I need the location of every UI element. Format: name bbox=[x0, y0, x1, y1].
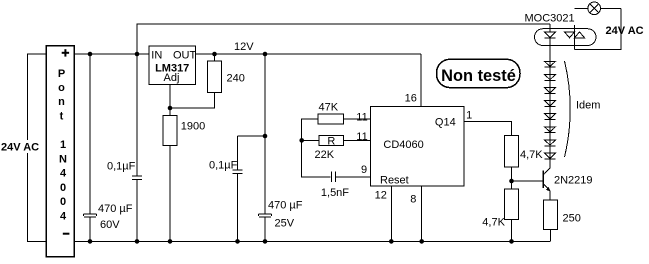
wire diode chain vertical bbox=[549, 58, 551, 159]
capacitor C 0,1uF (input) branch wire bbox=[136, 54, 138, 241]
bracket Idem bbox=[565, 61, 571, 157]
IC U CD4060 box bbox=[371, 107, 465, 186]
resistor R 1900 bbox=[163, 116, 177, 146]
svg-text:4,7K: 4,7K bbox=[520, 149, 543, 161]
wire top 24VAC rail bbox=[137, 24, 550, 54]
svg-text:240: 240 bbox=[227, 73, 245, 85]
node 24V AC label (left) bbox=[0, 140, 44, 153]
wire Adj to 240 resistor jog bbox=[170, 93, 215, 109]
wire + output of bridge to 12V rail bbox=[74, 53, 149, 55]
resistor R 250 bbox=[543, 200, 557, 230]
badge Non teste bbox=[437, 59, 521, 87]
label bridge + bbox=[62, 49, 69, 56]
svg-text:12: 12 bbox=[375, 189, 387, 201]
svg-text:2N2219: 2N2219 bbox=[554, 175, 593, 187]
svg-text:1: 1 bbox=[60, 139, 66, 151]
svg-text:470 µF: 470 µF bbox=[268, 200, 303, 212]
wire base node to transistor bbox=[512, 180, 543, 182]
svg-text:n: n bbox=[58, 96, 65, 108]
capacitor C 470uF 60V branch wire bbox=[89, 54, 91, 241]
wire 4,7K to base node bbox=[511, 167, 513, 189]
transistor Q1 2N2219 bbox=[542, 170, 544, 188]
svg-text:N: N bbox=[59, 153, 67, 165]
svg-text:o: o bbox=[58, 82, 65, 94]
wire 240 top to rail bbox=[214, 54, 216, 61]
wire oscillator left rail bbox=[302, 119, 331, 177]
resistor R 4,7K lower bbox=[505, 189, 519, 220]
resistor R 240 bbox=[208, 61, 222, 93]
svg-text:470 µF: 470 µF bbox=[98, 203, 133, 215]
wire 47K to pin 11 bbox=[344, 118, 371, 120]
svg-text:0,1µF: 0,1µF bbox=[209, 160, 238, 172]
svg-text:1900: 1900 bbox=[181, 120, 205, 132]
capacitor 0,1uF plates bbox=[132, 176, 142, 179]
lamp 24V bbox=[588, 2, 601, 15]
svg-text:250: 250 bbox=[563, 212, 581, 224]
wire pin8 to ground bbox=[421, 186, 423, 242]
svg-text:47K: 47K bbox=[319, 102, 339, 114]
svg-text:Reset: Reset bbox=[380, 175, 409, 187]
wire triac bottom to lamp right bbox=[575, 8, 622, 49]
svg-text:0: 0 bbox=[60, 196, 66, 208]
svg-text:0: 0 bbox=[60, 182, 66, 194]
svg-text:9: 9 bbox=[361, 164, 367, 176]
triac inside MOC3021 bbox=[574, 25, 576, 50]
wire LED vertical through stadium bbox=[549, 24, 551, 58]
optocoupler U MOC3021 stadium bbox=[535, 29, 597, 46]
svg-text:16: 16 bbox=[405, 93, 417, 105]
LED inside MOC3021 bbox=[545, 32, 556, 38]
label bridge - bbox=[63, 233, 70, 235]
svg-text:0,1µF: 0,1µF bbox=[107, 161, 136, 173]
capacitor 470uF 25V plates bbox=[259, 214, 272, 217]
svg-text:4,7K: 4,7K bbox=[482, 217, 505, 229]
svg-text:60V: 60V bbox=[100, 219, 120, 231]
wire 1,5nF to pin 9 bbox=[335, 176, 370, 178]
svg-text:R: R bbox=[327, 135, 335, 147]
resistor R 22K box bbox=[319, 135, 343, 145]
svg-text:Q14: Q14 bbox=[435, 116, 456, 128]
regulator U LM317 box bbox=[149, 46, 196, 85]
svg-text:P: P bbox=[58, 68, 65, 80]
wire 4,7K lower to ground bbox=[511, 220, 513, 242]
wire pin1 Q14 output bbox=[464, 121, 512, 135]
bridge rectifier Pont 1N4004 bbox=[46, 46, 74, 257]
wire pin12 to ground bbox=[390, 186, 392, 242]
diode chain 8x 1N4004 bbox=[545, 61, 556, 67]
capacitor C 0,1uF (output) branch bbox=[238, 136, 266, 241]
wire lamp right bbox=[601, 7, 622, 9]
capacitor 0,1uF output plates bbox=[232, 170, 242, 174]
svg-text:24V AC: 24V AC bbox=[606, 25, 644, 37]
capacitor C 470uF 25V branch wire bbox=[264, 54, 266, 241]
svg-text:8: 8 bbox=[410, 194, 416, 206]
wire pin16 to 12V rail bbox=[420, 54, 422, 107]
wire bottom rail left segment bbox=[28, 240, 46, 242]
svg-text:t: t bbox=[60, 111, 64, 123]
svg-text:Idem: Idem bbox=[576, 100, 600, 112]
wire AC input loop left bbox=[28, 54, 46, 241]
resistor R 4,7K upper bbox=[505, 135, 519, 167]
svg-text:11: 11 bbox=[356, 112, 367, 124]
svg-text:4: 4 bbox=[60, 168, 67, 180]
svg-text:1: 1 bbox=[466, 109, 472, 121]
svg-text:12V: 12V bbox=[234, 41, 254, 53]
svg-text:OUT: OUT bbox=[173, 50, 197, 62]
svg-text:24V AC: 24V AC bbox=[1, 142, 39, 154]
wire - output of bridge to ground rail bbox=[74, 240, 550, 242]
resistor R 47K bbox=[318, 114, 344, 124]
svg-text:11: 11 bbox=[356, 131, 367, 143]
svg-text:1,5nF: 1,5nF bbox=[321, 187, 349, 199]
svg-text:4: 4 bbox=[60, 211, 67, 223]
wire R to pin 11 bbox=[344, 139, 371, 141]
wire LM317 OUT to 12V rail bbox=[196, 53, 421, 55]
wire lamp left to triac top bbox=[575, 7, 588, 9]
svg-text:MOC3021: MOC3021 bbox=[525, 13, 575, 25]
wire 250 to ground bbox=[549, 230, 551, 242]
capacitor C 1,5nF plates bbox=[332, 171, 336, 182]
wire LM317 Adj down bbox=[169, 84, 171, 108]
svg-text:Non testé: Non testé bbox=[441, 67, 516, 85]
svg-text:22K: 22K bbox=[315, 149, 335, 161]
wire rail to R bbox=[302, 139, 320, 141]
wire 1900 to ground bbox=[169, 108, 171, 241]
svg-text:IN: IN bbox=[151, 50, 162, 62]
svg-text:25V: 25V bbox=[275, 218, 295, 230]
svg-text:Adj: Adj bbox=[164, 72, 180, 84]
capacitor 470uF 60V plates bbox=[84, 214, 97, 217]
svg-text:CD4060: CD4060 bbox=[383, 139, 423, 151]
